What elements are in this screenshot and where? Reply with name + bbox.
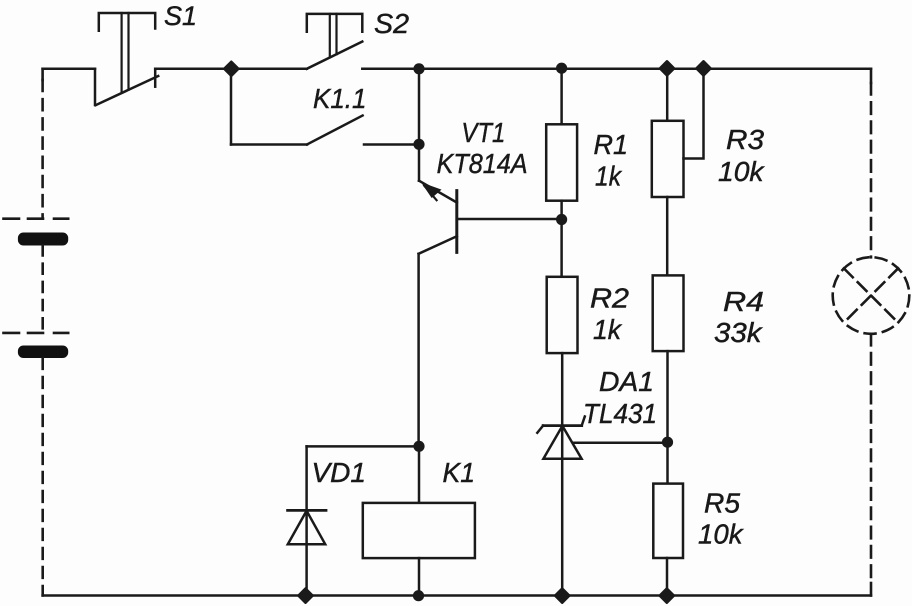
svg-text:1k: 1k	[595, 161, 623, 192]
svg-text:R5: R5	[704, 488, 740, 519]
wire top rail middle segment	[155, 68, 307, 71]
diode VD1	[288, 446, 419, 595]
svg-text:R4: R4	[723, 286, 764, 317]
svg-text:VT1: VT1	[461, 117, 505, 148]
svg-text:S2: S2	[374, 8, 409, 39]
svg-text:R3: R3	[726, 124, 764, 155]
resistor R5	[653, 484, 683, 596]
node junction I	[413, 441, 424, 452]
svg-text:R2: R2	[590, 283, 629, 314]
resistor R4	[653, 275, 684, 483]
svg-text:TL431: TL431	[583, 398, 657, 429]
svg-text:1k: 1k	[593, 314, 623, 345]
svg-text:10k: 10k	[698, 519, 744, 550]
svg-text:DA1: DA1	[599, 366, 654, 397]
transistor VT1	[419, 69, 562, 446]
wire left dashed lead top	[41, 69, 44, 219]
resistor R2	[547, 220, 578, 354]
resistor R3	[652, 69, 704, 276]
node junction B	[413, 63, 424, 74]
svg-text:VD1: VD1	[312, 457, 367, 488]
battery cell 1 negative plate	[18, 233, 68, 246]
node junction D	[556, 63, 567, 74]
battery cell 2 positive plate	[4, 332, 69, 335]
svg-text:10k: 10k	[718, 156, 766, 187]
pushbutton S2	[307, 14, 363, 69]
node junction G (diamond)	[696, 61, 710, 75]
node junction A (diamond)	[224, 62, 238, 76]
node junction K	[413, 590, 424, 601]
relay contact K1.1	[231, 75, 419, 144]
node junction H	[662, 437, 673, 448]
node junction F (diamond)	[660, 61, 674, 75]
shunt reference DA1 TL431	[537, 353, 667, 595]
svg-text:33k: 33k	[714, 317, 764, 348]
relay coil K1	[363, 446, 475, 596]
wire top rail left segment	[43, 68, 95, 71]
node junction M (diamond)	[660, 589, 674, 603]
svg-text:KT814A: KT814A	[437, 148, 528, 179]
wire top rail right segment	[362, 68, 871, 71]
wire right dashed lead bottom	[870, 334, 873, 596]
svg-text:S1: S1	[164, 1, 197, 31]
lamp HL1	[833, 257, 910, 334]
node junction J (diamond)	[298, 589, 312, 603]
wire left dashed lead between cells	[41, 246, 44, 333]
node junction C	[413, 139, 424, 150]
wire right dashed lead top	[870, 69, 873, 257]
svg-text:K1.1: K1.1	[313, 83, 367, 114]
wire bottom rail	[43, 594, 871, 597]
resistor R1	[546, 69, 577, 219]
svg-text:R1: R1	[594, 129, 629, 160]
node junction E (base node)	[556, 214, 567, 225]
battery cell 1 positive plate	[4, 217, 69, 220]
node junction L (diamond)	[555, 589, 569, 603]
wire left dashed lead bottom	[41, 358, 44, 596]
battery cell 2 negative plate	[18, 346, 68, 359]
svg-text:K1: K1	[443, 457, 476, 488]
pushbutton S1	[95, 13, 158, 105]
